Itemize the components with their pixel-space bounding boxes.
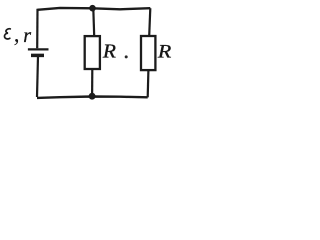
svg-text:R: R xyxy=(102,42,116,63)
wire middle branch lower xyxy=(91,69,93,96)
wire right branch upper xyxy=(149,8,150,36)
svg-text:r: r xyxy=(23,25,31,47)
wire left side (battery top lead) xyxy=(36,9,38,48)
wire right branch lower xyxy=(147,70,150,97)
wire middle branch upper xyxy=(92,8,95,36)
wire bottom rail xyxy=(37,97,148,98)
speck artifact between labels xyxy=(125,55,128,58)
svg-text:R: R xyxy=(157,42,172,62)
resistor R (middle) body xyxy=(85,36,100,69)
resistor R (right) body xyxy=(141,36,155,70)
battery B1 positive plate (long thin) xyxy=(28,48,49,50)
svg-text:,: , xyxy=(14,21,20,47)
node junction dot bottom xyxy=(89,93,96,100)
label EMF script-epsilon xyxy=(4,29,10,39)
wire battery bottom lead xyxy=(37,56,38,97)
wire top rail xyxy=(38,8,151,10)
node junction dot top xyxy=(89,5,96,12)
battery B1 negative plate (short thick) xyxy=(31,54,44,58)
